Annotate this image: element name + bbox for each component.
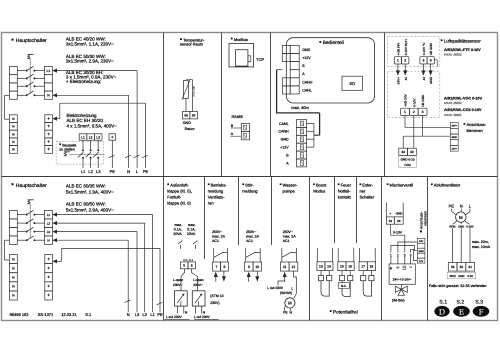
svg-text:L-open: L-open	[173, 278, 183, 282]
label +12V pin (Bedienteil)	[302, 56, 311, 60]
label AIR1/KWL-CO2 0-10V	[444, 108, 482, 117]
svg-text:meldung: meldung	[208, 188, 223, 193]
wire switch row 4 left	[17, 94, 26, 96]
svg-text:+: +	[47, 131, 50, 136]
svg-text:L2: L2	[142, 312, 147, 317]
terminal block 56 55	[182, 111, 197, 119]
terminal block 33 32 31	[448, 263, 474, 272]
wire valve pin 1 to GND klemme	[391, 246, 417, 264]
svg-text:Stör-: Stör-	[245, 182, 254, 187]
wire N to mains (bottom)	[57, 240, 128, 312]
svg-text:14: 14	[327, 264, 331, 268]
svg-text:230V~: 230V~	[173, 283, 183, 287]
label CANH pin (lower block)	[278, 130, 289, 134]
svg-text:PE: PE	[449, 204, 455, 209]
divider left of Aussenluftklappe column (bottom)	[163, 177, 165, 321]
wire bus tap (Bedienteil)	[277, 70, 283, 113]
label damper ratings	[173, 223, 195, 236]
arrow into N terminal	[52, 93, 57, 97]
switch Q2 pole 2	[26, 219, 36, 224]
wire B to RS485 terminal	[231, 127, 242, 129]
svg-text:S.2: S.2	[457, 299, 465, 305]
svg-text:12V: 12V	[419, 260, 424, 263]
sheet badge D	[434, 306, 449, 317]
signal arrow out 7	[214, 272, 218, 282]
svg-text:3: 3	[423, 59, 425, 63]
control panel housing (Bedienteil)	[286, 38, 374, 103]
wire L1 to mains (bottom)	[57, 215, 153, 313]
label Anschlussklemmen (top)	[464, 122, 487, 133]
rotated label +UB 24V	[397, 42, 401, 55]
label L-open 230V~ (damper 2)	[193, 278, 203, 287]
wire sensor2 GND junction	[403, 115, 450, 148]
actuator M1 leads	[178, 306, 184, 314]
cable break mark damper 2	[193, 241, 197, 249]
wire Q2 row 4 right	[35, 239, 44, 241]
label Kl.5 Kl.6 (small)	[183, 259, 194, 262]
label Modbus	[231, 37, 248, 42]
svg-text:12V+: 12V+	[451, 148, 457, 151]
svg-text:klappe (Kl. 6): klappe (Kl. 6)	[167, 200, 191, 205]
damper actuator M2 (STM)	[192, 291, 205, 306]
svg-text:Falls nicht genutzt: 32-33 ver: Falls nicht genutzt: 32-33 verbinden	[429, 284, 487, 288]
label CANL pin (lower block)	[279, 122, 289, 126]
actuator M2 leads	[195, 306, 201, 314]
svg-text:max. 10mA: max. 10mA	[472, 245, 491, 249]
svg-text:L1: L1	[150, 312, 155, 317]
rotated label 0-10V %r.H.	[404, 38, 408, 55]
svg-text:16: 16	[348, 264, 352, 268]
svg-text:GND: GND	[418, 250, 424, 253]
arrow into N terminal (Q2)	[52, 238, 57, 242]
svg-text:18: 18	[370, 264, 374, 268]
wire Q2 row 3 left	[17, 231, 26, 233]
switch Q2 pole 4	[26, 236, 36, 241]
svg-text:1: 1	[404, 110, 406, 114]
divider left of Bedienteil column	[270, 33, 272, 177]
external switch N.C. (Feuer-Notfall)	[338, 271, 353, 297]
svg-text:Schalter: Schalter	[360, 194, 375, 199]
svg-text:GND: GND	[458, 225, 464, 228]
svg-text:3: 3	[404, 253, 406, 257]
label Externer Schalter	[360, 182, 375, 199]
svg-text:Mischerventil: Mischerventil	[390, 182, 413, 187]
wire PE to mains PE (bottom)	[57, 248, 160, 312]
switch Q2 pole 1	[26, 210, 36, 215]
label WHSH (pump)	[280, 291, 292, 295]
rotated label 0-10V &#176;C	[422, 42, 426, 55]
svg-text:19: 19	[389, 219, 393, 223]
svg-text:+: +	[389, 212, 391, 216]
rotated label GND	[429, 76, 433, 84]
divider left of Boost Modus column	[309, 177, 311, 321]
relay contact K1 (Betriebsmeldung)	[214, 248, 228, 262]
svg-text:Art.Nr. 26252: Art.Nr. 26252	[444, 53, 462, 57]
label L1 (heater feed)	[81, 169, 86, 174]
svg-text:4 x 1.5mm², 9.5A, 400V~: 4 x 1.5mm², 9.5A, 400V~	[67, 123, 118, 128]
label GND pin (Bedienteil)	[302, 48, 310, 52]
svg-text:230V~: 230V~	[193, 283, 203, 287]
rotated label 0-10V (sensor2)	[412, 98, 416, 107]
label GND Raum	[183, 121, 195, 131]
heater pole L3 wire upper	[97, 140, 99, 150]
terminal block CAN/RS485 (6 cells)	[297, 120, 307, 167]
SD card slot	[342, 76, 363, 90]
svg-text:4: 4	[430, 59, 432, 63]
label Boost Modus	[313, 182, 327, 193]
arrow into L1 terminal	[52, 69, 57, 73]
svg-text:42: 42	[404, 77, 408, 81]
wire Q2 row 3 right	[35, 231, 44, 233]
label A pin	[231, 132, 234, 136]
divider left of Betriebsmeldung column	[204, 177, 206, 260]
terminal column PE (5 cells, bottom)	[45, 255, 53, 301]
svg-text:250V~: 250V~	[246, 230, 256, 234]
svg-text:AIR1/KWL-FTF 0-10V: AIR1/KWL-FTF 0-10V	[444, 48, 481, 52]
wire damper terminal 6 to actuator 2	[192, 269, 198, 291]
svg-text:11: 11	[283, 265, 287, 269]
svg-text:Kl.6: Kl.6	[189, 259, 194, 262]
svg-text:12.03.21: 12.03.21	[61, 312, 77, 317]
label S.1 S.2 S.3	[439, 299, 483, 305]
dashed box Bauseits zu stellen	[56, 141, 103, 164]
label Hauptschalter (bottom section)	[12, 183, 47, 189]
label Mischerventil	[387, 182, 413, 187]
svg-text:2: 2	[404, 59, 406, 63]
switch pole 1	[26, 66, 36, 71]
heater pole L1 wire upper	[82, 140, 84, 150]
svg-text:RPM: RPM	[449, 225, 456, 228]
label B pin (lower block)	[286, 153, 289, 157]
svg-text:5x1.5mm², 2.9A, 400V~: 5x1.5mm², 2.9A, 400V~	[66, 208, 114, 213]
rotated label 24V+	[397, 77, 401, 85]
svg-text:Modbus: Modbus	[234, 37, 248, 42]
cable spec ALB EC 50/30 WW	[66, 54, 114, 64]
svg-text:12: 12	[292, 265, 296, 269]
label max 20m 10mA	[472, 240, 491, 249]
svg-text:Hauptschalter: Hauptschalter	[16, 183, 47, 189]
svg-text:5: 5	[183, 264, 185, 268]
svg-text:+UB 24V: +UB 24V	[397, 42, 401, 55]
label N (mains bottom)	[127, 312, 130, 317]
svg-text:Abluftventilator: Abluftventilator	[434, 182, 461, 187]
svg-text:zu stellen: zu stellen	[59, 148, 75, 152]
mixing valve symbol	[395, 284, 407, 295]
wire Q2 row 4 left	[17, 239, 26, 241]
rotated label +UB 24V (sensor2)	[404, 93, 408, 106]
svg-text:Fortluft-: Fortluft-	[167, 194, 181, 199]
svg-text:3x1.5mm², 2.9A, 230V~: 3x1.5mm², 2.9A, 230V~	[66, 59, 114, 64]
svg-text:+: +	[111, 134, 114, 139]
svg-text:Kl.5: Kl.5	[183, 259, 188, 262]
wire stubs rows 1-4	[307, 123, 314, 147]
label L1 (mains bottom)	[150, 312, 155, 317]
svg-text:GND: GND	[429, 76, 433, 84]
svg-text:13: 13	[319, 264, 323, 268]
wire valve pin 2 to 24V klemme	[398, 242, 417, 264]
label B pin	[231, 124, 234, 128]
svg-text:+: +	[47, 124, 50, 129]
svg-text:+: +	[47, 293, 50, 298]
svg-text:0-10V °C: 0-10V °C	[422, 42, 426, 55]
label WHSH (valve)	[392, 298, 405, 302]
label L3 (heater feed)	[96, 169, 101, 174]
wire Q2 row 2 right	[35, 222, 44, 224]
terminal block 15 16	[338, 262, 354, 271]
divider left of Externer Schalter column	[356, 177, 358, 244]
cable break mark damper 1	[178, 241, 182, 249]
bus cable to panel	[276, 113, 320, 135]
svg-text:ren: ren	[208, 200, 214, 205]
wire sensor lead 2	[186, 80, 193, 112]
svg-text:Boost: Boost	[316, 182, 327, 187]
svg-text:+12V: +12V	[302, 56, 311, 60]
heater PE wire	[111, 140, 113, 168]
svg-text:CO2: CO2	[404, 163, 411, 167]
wire switch row 1 right	[35, 70, 44, 72]
svg-text:UB GND: UB GND	[421, 94, 425, 107]
svg-text:CANH: CANH	[302, 80, 313, 84]
label L out 230V (pump)	[267, 286, 284, 290]
wire L2 to mains (bottom)	[57, 223, 145, 312]
terminal block 19 20	[386, 217, 403, 224]
svg-text:PE: PE	[143, 169, 149, 174]
label L2 (mains bottom)	[142, 312, 147, 317]
svg-text:L2: L2	[88, 169, 93, 174]
relay contact K3 (Wasserpumpe)	[282, 248, 297, 262]
svg-text:Hauptschalter: Hauptschalter	[16, 38, 47, 44]
terminal block 17 18	[359, 262, 376, 271]
wire sensor lead 1	[185, 98, 187, 111]
fan motor M4	[456, 212, 466, 222]
svg-text:24V+: 24V+	[397, 77, 401, 85]
fan motor leads	[452, 209, 470, 215]
Boost input leads	[317, 248, 332, 262]
label box GND 0-10 CO2	[399, 156, 417, 167]
svg-text:M: M	[459, 215, 463, 220]
heater pole L2 wire upper	[90, 140, 92, 150]
Extern input leads	[359, 248, 375, 262]
pump motor M3	[285, 298, 295, 308]
rotated label Anschlussklemmen (valve)	[420, 211, 428, 233]
arrow into PE terminal column (top)	[52, 117, 57, 121]
sheet badge F	[473, 306, 490, 317]
sheet badge E	[453, 306, 470, 317]
heater switch pole L2	[86, 149, 92, 158]
svg-text:Anschluss-: Anschluss-	[467, 122, 487, 127]
label PE N L (fan)	[449, 204, 472, 209]
wire switch row 1 left	[17, 70, 26, 72]
wire sensor2 +UB to 24V+ klemme	[405, 115, 450, 127]
labels RPM GND 0-10V (upper)	[448, 224, 475, 228]
terminal block X1 (switch input, 4 cells)	[9, 67, 17, 100]
svg-text:32: 32	[460, 265, 464, 269]
svg-text:GND: GND	[396, 212, 404, 216]
svg-text:24V: 24V	[419, 240, 424, 243]
svg-text:max. 2A: max. 2A	[283, 235, 297, 239]
svg-text:SD: SD	[349, 81, 355, 86]
cable spec ALB EC 80/50 WW	[66, 202, 114, 213]
wire switch row 2 left	[17, 77, 26, 79]
svg-text:CANH: CANH	[278, 130, 289, 134]
label PE (mains)	[143, 169, 149, 174]
svg-text:20VA: 20VA	[187, 232, 196, 236]
terminal block heater L1 L2 L3	[79, 134, 102, 140]
svg-text:+: +	[47, 116, 50, 121]
terminal block 44 43	[399, 148, 417, 155]
sensor wire to 42	[403, 64, 407, 76]
svg-text:Elektroheizung: Elektroheizung	[67, 113, 98, 118]
arrow into L2 terminal (Q2)	[52, 221, 57, 225]
Anschlussklemmen block (5 cells)	[450, 123, 458, 151]
svg-text:85499 162: 85499 162	[10, 312, 30, 317]
Bedienteil plug cells lower pair	[282, 78, 290, 94]
svg-text:L1: L1	[81, 169, 86, 174]
heater pole L2 wire lower	[90, 158, 92, 168]
label N (mains)	[127, 169, 130, 174]
pump motor PE/N leads	[284, 306, 290, 311]
label Luftqualitaetssensor	[441, 39, 481, 44]
label N (actuator M2)	[203, 310, 206, 314]
svg-text:(STM 10: (STM 10	[210, 294, 223, 298]
svg-text:klappe (Kl. 5),: klappe (Kl. 5),	[167, 188, 192, 193]
svg-text:SS-1371: SS-1371	[38, 312, 54, 317]
label Feuer-Notfall-kontakt	[338, 182, 352, 199]
wire PE to mains PE	[57, 103, 146, 168]
label PE (mains bottom)	[157, 312, 163, 317]
svg-text:7: 7	[216, 265, 218, 269]
label L (mains)	[136, 169, 139, 174]
label Bauseits zu stellen	[59, 143, 76, 151]
rotated label 42	[404, 77, 408, 81]
wire switch row 2 right	[35, 77, 44, 79]
external switch (Extern)	[361, 271, 374, 297]
svg-text:N: N	[460, 204, 463, 209]
label L out 230V (actuator M1)	[164, 315, 189, 319]
svg-text:31: 31	[468, 265, 472, 269]
svg-text:6: 6	[191, 264, 193, 268]
svg-text:8: 8	[224, 265, 226, 269]
cable spec ALB EC 60/35 WW	[66, 184, 114, 195]
svg-text:0-10V: 0-10V	[466, 225, 473, 228]
label Abluftventilator	[431, 182, 461, 187]
svg-text:L3: L3	[135, 312, 140, 317]
svg-text:44: 44	[401, 150, 405, 154]
main switch Q2 manual actuator	[27, 200, 33, 204]
svg-text:2: 2	[397, 253, 399, 257]
svg-text:43: 43	[410, 150, 414, 154]
svg-text:+: +	[47, 275, 50, 280]
wire Q2 row 1 left	[17, 214, 26, 216]
label AIR1/KWL-FTF 0-10V	[444, 48, 481, 57]
valve actuator box 24V/0-10V	[389, 264, 415, 284]
label L out 230V (actuator M2)	[194, 315, 219, 319]
tick on L wire	[134, 155, 140, 157]
label CANL pin (Bedienteil)	[302, 88, 312, 92]
terminal block 13 14	[317, 262, 333, 271]
heater pole L1 wire lower	[82, 158, 84, 168]
svg-text:5x1.5mm², 1.9A, 400V~: 5x1.5mm², 1.9A, 400V~	[66, 190, 114, 195]
terminal column PE (5 cells, top)	[45, 115, 53, 154]
svg-text:9: 9	[248, 265, 250, 269]
svg-text:TCP: TCP	[256, 57, 264, 62]
label RS485	[232, 115, 243, 119]
svg-text:meldung: meldung	[242, 188, 257, 193]
svg-text:L1: L1	[47, 213, 51, 217]
svg-text:CANL: CANL	[279, 122, 289, 126]
svg-text:S.3: S.3	[475, 299, 483, 305]
section divider horizontal (middle)	[2, 176, 498, 178]
rotated label UB GND	[429, 42, 433, 55]
wire sensor2 0-10V to terminal 43	[413, 115, 415, 148]
main switch Q1 linkage	[29, 59, 31, 92]
label STM 10 230V	[210, 294, 223, 305]
svg-text:L3: L3	[96, 135, 100, 139]
svg-text:Bedienteil: Bedienteil	[323, 40, 344, 46]
terminal heater PE	[109, 134, 116, 140]
main switch Q2 linkage	[29, 204, 31, 237]
valve terminal leads	[386, 203, 403, 217]
svg-text:AC1: AC1	[283, 239, 290, 243]
svg-text:F: F	[479, 307, 484, 316]
svg-text:max. 20m,: max. 20m,	[472, 240, 489, 244]
valve klemmen block (5 cells)	[417, 238, 425, 263]
svg-text:3x1.5mm², 1.1A, 230V~: 3x1.5mm², 1.1A, 230V~	[66, 41, 114, 46]
svg-text:S.1: S.1	[85, 312, 92, 317]
svg-text:+: +	[47, 265, 50, 270]
svg-text:M: M	[288, 301, 292, 306]
external switch (Boost)	[318, 271, 331, 297]
heater switch pole L3	[93, 149, 99, 158]
switch Q2 pole 3	[26, 227, 36, 232]
svg-text:Modus: Modus	[313, 188, 325, 193]
fan signal wires	[452, 221, 470, 262]
air sensor module VOC/CO2 (dashed)	[388, 72, 440, 118]
switch pole 4	[26, 91, 36, 96]
svg-text:10: 10	[255, 265, 259, 269]
svg-text:L1: L1	[81, 135, 85, 139]
svg-text:GND: GND	[458, 275, 464, 278]
svg-text:UB GND: UB GND	[429, 42, 433, 55]
label B pin (Bedienteil)	[302, 64, 305, 68]
svg-text:+ Elektroheizung:: + Elektroheizung:	[66, 79, 101, 84]
svg-text:Raum: Raum	[185, 127, 195, 131]
cable spec ALB EC 30/20 EH	[66, 70, 117, 84]
svg-text:+12V: +12V	[280, 146, 289, 150]
damper actuator M1 (STM)	[175, 291, 188, 306]
Bedienteil terminal block (6 cells)	[290, 45, 299, 94]
svg-text:(WHSH): (WHSH)	[392, 298, 405, 302]
svg-text:ALB EC 80/50 WW:: ALB EC 80/50 WW:	[66, 202, 106, 207]
svg-text:3: 3	[422, 110, 424, 114]
wire L3 to mains (bottom)	[57, 232, 137, 313]
label PE N (pump)	[283, 311, 292, 315]
terminal block 5 6	[181, 262, 196, 269]
svg-text:N.C.: N.C.	[341, 284, 347, 288]
label Wasserpumpe	[280, 182, 298, 193]
label Potentialfrei	[330, 309, 358, 314]
signal arrow out 10	[255, 271, 259, 282]
terminal block X4 L1 L2 L3 N	[45, 210, 53, 244]
wire from X1 bottom to N terminal column	[5, 95, 10, 119]
svg-text:L out 230V: L out 230V	[166, 315, 183, 319]
svg-text:klemmen: klemmen	[423, 211, 427, 226]
svg-text:klemmen: klemmen	[467, 128, 483, 133]
label CANH pin (Bedienteil)	[302, 80, 313, 84]
svg-text:0-10V %r.H.: 0-10V %r.H.	[404, 38, 408, 55]
label box RPM GND 0-10	[447, 272, 476, 278]
main switch Q1 manual actuator	[27, 55, 33, 59]
